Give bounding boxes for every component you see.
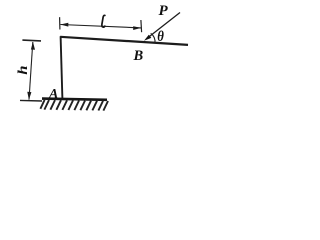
ground line at fixed support [42, 99, 107, 100]
dimension h: bottom extension tick [20, 99, 42, 102]
frame horizontal member (corner to right end through B) [60, 37, 188, 45]
dimension h: bottom arrowhead [27, 92, 31, 100]
dimension l: line [61, 25, 142, 28]
dimension l: left arrowhead [60, 23, 68, 27]
svg-text:θ: θ [157, 29, 164, 45]
dimension l: right arrowhead [133, 26, 141, 30]
svg-text:P: P [159, 3, 169, 19]
dimension label l [102, 15, 105, 27]
force P: arrowhead at B [144, 35, 151, 41]
force P: inclined line of action [147, 13, 181, 39]
dimension h: top extension tick [22, 39, 41, 42]
svg-text:A: A [48, 87, 58, 102]
dimension h: line [29, 42, 33, 100]
angle arc at B [151, 33, 155, 43]
dimension l: left extension tick [59, 17, 61, 29]
dimension l: right extension tick [140, 20, 143, 32]
frame vertical column (corner down to fixed base A) [61, 36, 63, 99]
ground hatching [40, 100, 108, 111]
dimension h: top arrowhead [31, 42, 35, 50]
svg-text:B: B [133, 48, 144, 64]
svg-text:h: h [16, 65, 30, 74]
